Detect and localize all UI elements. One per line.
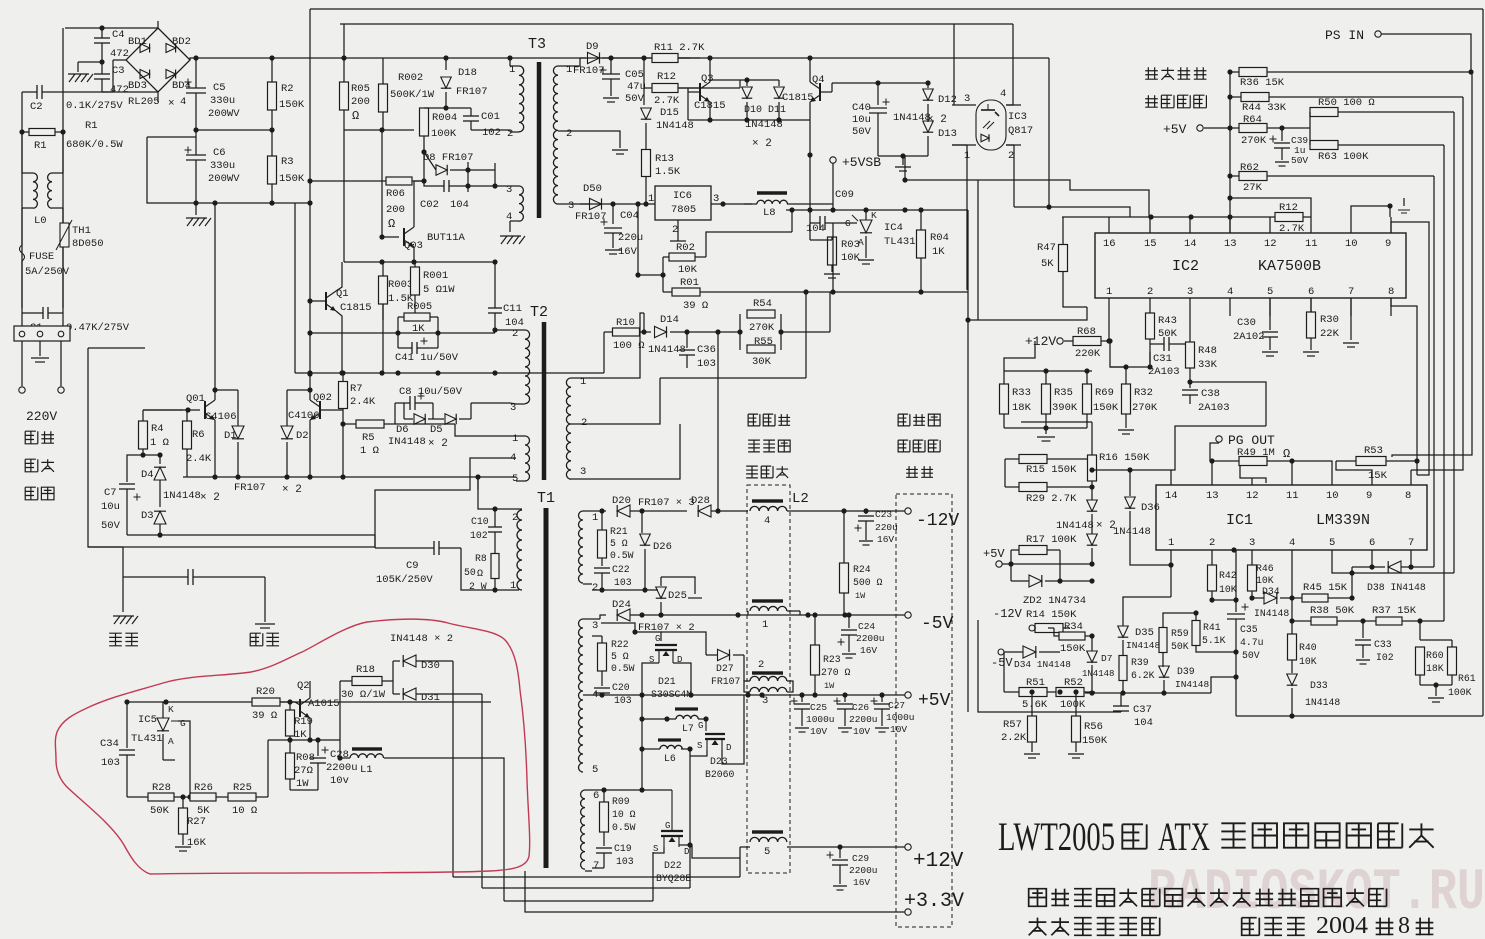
winding 6-7 circuit R09/C19: [592, 789, 604, 791]
svg-text:C1815: C1815: [782, 92, 814, 104]
svg-text:G: G: [845, 218, 851, 229]
wire Q03 emitter rail: [344, 129, 414, 131]
svg-text:4: 4: [1000, 88, 1006, 100]
svg-text:103: 103: [697, 358, 716, 370]
diode D18 FR107: [445, 58, 447, 70]
wire from plug to switch area: [88, 348, 375, 547]
resistor R50 100ohm: [1310, 108, 1338, 117]
svg-text:+5V: +5V: [983, 547, 1005, 561]
svg-text:IC1: IC1: [1226, 512, 1253, 529]
wire bottom long line y=716: [1236, 715, 1483, 717]
svg-text:150K: 150K: [279, 173, 305, 185]
svg-text:14: 14: [1184, 238, 1197, 250]
diode D34b 1N4148: [1023, 646, 1036, 658]
transformer T2 core bar: [542, 322, 547, 480]
Y-cap between grounds: [187, 569, 189, 585]
wire IC5 G to divider: [178, 721, 190, 797]
svg-text:R004: R004: [432, 112, 457, 124]
resistor R61 100K: [1448, 647, 1457, 675]
resistor R40 10K: [1288, 634, 1297, 660]
resistor R33 18K: [1000, 384, 1009, 414]
svg-text:27K: 27K: [1243, 182, 1263, 194]
svg-text:50K: 50K: [1171, 641, 1189, 652]
svg-text:R10: R10: [616, 317, 635, 329]
resistor R7 2.4K: [339, 382, 348, 409]
svg-text:R03: R03: [841, 239, 860, 251]
wire bus +12V return y=877: [453, 876, 740, 878]
resistor R6 2.4K: [183, 421, 192, 449]
wire right bus 5 (R36 net): [1392, 72, 1472, 457]
svg-text:5K: 5K: [1041, 258, 1054, 270]
wire D30 to bus: [452, 661, 454, 877]
wire C4 top: [102, 27, 158, 29]
svg-text:LWT2005: LWT2005: [998, 814, 1115, 859]
R49 bracket ground: [1240, 466, 1266, 483]
wire T2 right pin3: [580, 424, 680, 479]
svg-text:1000u: 1000u: [886, 712, 915, 723]
svg-text:104: 104: [1134, 717, 1153, 729]
svg-text:K: K: [168, 704, 174, 715]
label DC output connector: [898, 414, 910, 426]
svg-text:R3: R3: [281, 156, 294, 168]
capacitor C04 220u/16V: [612, 204, 614, 224]
svg-text:R04: R04: [930, 232, 949, 244]
wire pin1 down: [1108, 316, 1110, 341]
svg-text:1: 1: [762, 619, 768, 631]
svg-text:D30: D30: [421, 660, 440, 672]
transformer T2 left winding pins 2-3: [516, 329, 525, 331]
svg-text:C37: C37: [1133, 704, 1152, 716]
svg-text:D34: D34: [1262, 586, 1280, 597]
terminal +12V out: [905, 844, 911, 850]
wire mid bus x=1417: [1416, 390, 1418, 461]
svg-text:C02: C02: [420, 199, 439, 211]
svg-text:2: 2: [512, 328, 518, 340]
optocoupler IC3 Q817: [976, 100, 1006, 150]
transistor Q03 BUT11A: [403, 228, 405, 246]
wire T2 right pin2 tap: [571, 423, 580, 425]
svg-text:R12: R12: [657, 71, 676, 83]
svg-text:L7: L7: [682, 723, 694, 734]
svg-text:2A102: 2A102: [1233, 331, 1265, 343]
svg-text:R41: R41: [1203, 622, 1221, 633]
svg-text:14: 14: [1165, 490, 1178, 502]
PFC winding 3: [750, 687, 787, 692]
resistor R52 100K: [1056, 688, 1084, 697]
transformer T2 left winding pins 1-4-5: [516, 435, 525, 437]
svg-text:3: 3: [964, 93, 970, 105]
resistor R68 220K: [1073, 337, 1101, 346]
svg-text:Q3: Q3: [701, 73, 714, 85]
wire x=806 up: [805, 292, 807, 378]
svg-text:D50: D50: [583, 183, 602, 195]
wire R42 bottom to C35 node: [1212, 599, 1236, 601]
svg-text:BD2: BD2: [172, 36, 191, 48]
wire R08/C28 bottom: [290, 789, 318, 791]
svg-text:R50 100 Ω: R50 100 Ω: [1318, 97, 1375, 109]
capacitor C5 330u/200WV: [195, 58, 197, 88]
wire mid rail between C5/C6: [196, 129, 272, 131]
wire Q01 emitter: [214, 420, 216, 477]
thermistor TH1 SD050: [60, 223, 69, 247]
wire right bus 3 (R50 net): [1453, 112, 1455, 573]
capacitor C25 1000u/10V: [801, 695, 803, 702]
IC6 output to L8: [711, 203, 752, 205]
svg-text:R19: R19: [294, 716, 313, 728]
wire AC left rail: [21, 92, 23, 308]
transformer T3 secondary winding right: [558, 65, 567, 67]
svg-text:D25: D25: [668, 590, 687, 602]
ground near C3: [78, 61, 102, 63]
svg-text:+5VSB: +5VSB: [842, 155, 881, 170]
svg-text:C29: C29: [852, 853, 869, 864]
svg-text:11: 11: [1286, 490, 1299, 502]
svg-text:R18: R18: [356, 664, 375, 676]
svg-text:18K: 18K: [1012, 402, 1032, 414]
resistor R43 50K: [1146, 313, 1155, 339]
wire R49 line to pin10 region: [1292, 461, 1332, 485]
svg-text:105K/250V: 105K/250V: [376, 574, 433, 586]
svg-text:R20: R20: [256, 686, 275, 698]
svg-text:D39: D39: [1177, 666, 1195, 677]
bridge rectifier BD1-BD4 RL205x4: [126, 28, 190, 92]
svg-text:1N4148: 1N4148: [656, 120, 694, 132]
resistor R16 150K vertical: [1088, 455, 1097, 481]
svg-text:220V: 220V: [26, 409, 57, 424]
svg-text:R06: R06: [386, 188, 405, 200]
wire D8 net to T3 pin3: [468, 169, 495, 171]
resistor R44 33K: [1241, 93, 1269, 102]
svg-text:-5V: -5V: [921, 614, 954, 634]
wire 5VSB feedback rail: [832, 204, 834, 210]
wire ZD2 node right: [1060, 580, 1092, 582]
resistor R59 50K: [1159, 628, 1167, 653]
svg-text:C41 1u/50V: C41 1u/50V: [395, 352, 459, 364]
svg-text:4: 4: [764, 515, 770, 527]
svg-text:2: 2: [1008, 150, 1014, 162]
svg-text:R57: R57: [1003, 719, 1022, 731]
diodes 1N4148 x2 below R16: [1087, 500, 1098, 511]
svg-text:1N4148: 1N4148: [1056, 520, 1094, 532]
resistor R28 50K: [148, 793, 174, 801]
capacitor C19 103: [596, 847, 612, 849]
PFC dashed box L2: [747, 485, 790, 873]
ground main bulk: [195, 203, 197, 215]
svg-text:33K: 33K: [1198, 359, 1218, 371]
svg-text:8D050: 8D050: [72, 238, 104, 250]
svg-text:8: 8: [1405, 490, 1411, 502]
svg-text:D34 1N4148: D34 1N4148: [1014, 659, 1071, 670]
resistor R32 270K: [1122, 384, 1131, 414]
capacitor C23 220u/16V: [865, 511, 867, 514]
svg-text:0.5W: 0.5W: [610, 550, 634, 561]
svg-text:5.1K: 5.1K: [1202, 635, 1226, 646]
svg-text:1 Ω: 1 Ω: [360, 445, 379, 457]
svg-text:7: 7: [1348, 286, 1354, 298]
wire R53 ends: [1336, 461, 1372, 485]
wire R54 node up: [643, 313, 645, 332]
svg-text:10K: 10K: [678, 264, 698, 276]
capacitor C31 2A103: [1163, 337, 1165, 351]
wire D50 output node line y=204: [580, 203, 655, 205]
svg-text:220K: 220K: [1075, 348, 1101, 360]
wire bus y=888: [482, 887, 690, 889]
svg-text:R24: R24: [853, 564, 871, 575]
svg-text:D31: D31: [421, 692, 440, 704]
transformer T1 core bar: [544, 508, 549, 868]
AC plug connector: [14, 326, 70, 341]
IC regulator IC6 7805: [655, 186, 711, 220]
svg-text:G: G: [655, 634, 660, 644]
svg-text:L2: L2: [792, 491, 809, 507]
svg-text:6: 6: [1369, 537, 1375, 549]
wire bus +3.3V y=912: [525, 871, 545, 912]
wire pin13 to R12b: [1230, 198, 1311, 217]
svg-text:R11 2.7K: R11 2.7K: [654, 42, 705, 54]
svg-text:RL205: RL205: [128, 96, 160, 108]
svg-text:500 Ω: 500 Ω: [853, 577, 883, 588]
wire top line 2 y=24: [340, 23, 1013, 25]
svg-text:LM339N: LM339N: [1316, 512, 1370, 529]
T3 sec tap 2: [558, 130, 567, 132]
wire pin13 up: [1211, 461, 1213, 485]
wire Q4 collector top: [809, 58, 811, 70]
svg-text:10 Ω: 10 Ω: [232, 805, 257, 817]
svg-text:3: 3: [580, 466, 586, 478]
svg-text:C40: C40: [852, 102, 871, 114]
svg-text:+5V: +5V: [918, 691, 951, 711]
resistor R11 2.7K: [652, 54, 678, 63]
svg-text:BYQ28E: BYQ28E: [656, 873, 691, 884]
MOSFET D21 S30SC4M: [601, 623, 661, 641]
svg-text:IN4148: IN4148: [1175, 679, 1210, 690]
svg-text:D6: D6: [396, 424, 409, 436]
svg-text:R4: R4: [151, 423, 164, 435]
svg-text:R54: R54: [753, 298, 772, 310]
reference IC5 TL431: [157, 718, 169, 731]
svg-text:2: 2: [758, 659, 764, 671]
svg-text:R42: R42: [1219, 570, 1237, 581]
svg-text:D28: D28: [691, 495, 710, 507]
svg-text:10V: 10V: [853, 726, 870, 737]
svg-text:R60: R60: [1426, 650, 1444, 661]
diode D35 1N4148: [1118, 626, 1129, 637]
svg-text:220u: 220u: [875, 522, 898, 533]
ground pin of plug: [39, 341, 41, 356]
svg-text:C2: C2: [30, 101, 43, 113]
svg-text:L6: L6: [664, 753, 676, 764]
DC output dashed box: [896, 494, 952, 927]
svg-text:1N4148: 1N4148: [893, 112, 931, 124]
svg-text:Q02: Q02: [313, 392, 332, 404]
capacitor C02 104: [443, 180, 445, 192]
svg-text:IN4148 × 2: IN4148 × 2: [390, 633, 453, 645]
resistor R20 39ohm: [252, 698, 280, 706]
wire Q01 collector bus x=215: [214, 203, 216, 400]
wire winding1 right: [787, 610, 800, 612]
svg-text:R09: R09: [612, 796, 630, 807]
svg-text:16V: 16V: [877, 534, 894, 545]
svg-text:2200u: 2200u: [849, 714, 878, 725]
transistor Q2 A1015: [299, 699, 301, 717]
svg-text:Ω: Ω: [352, 109, 359, 123]
svg-text:4: 4: [1289, 537, 1295, 549]
wire bottom of C40/D13: [878, 155, 928, 157]
cold ground: [264, 577, 266, 622]
svg-text:5: 5: [512, 473, 518, 485]
diode D36 1N4148: [1129, 470, 1131, 496]
svg-text:200WV: 200WV: [208, 108, 240, 120]
svg-text:L1: L1: [360, 764, 373, 776]
wire T2 right pin1: [580, 313, 644, 378]
svg-text:1W: 1W: [855, 591, 866, 601]
svg-text:102: 102: [482, 127, 501, 139]
svg-text:R02: R02: [676, 242, 695, 254]
wire x=690 down bus: [689, 749, 691, 888]
svg-text:9: 9: [1366, 490, 1372, 502]
svg-text:D7: D7: [1101, 653, 1112, 664]
svg-text:C30: C30: [1237, 317, 1256, 329]
svg-text:1000u: 1000u: [806, 714, 835, 725]
svg-text:5: 5: [592, 764, 598, 776]
wire long y=180: [905, 180, 1149, 217]
svg-text:2.2K: 2.2K: [1001, 732, 1027, 744]
wire left rail: [143, 409, 183, 411]
svg-text:R62: R62: [1240, 162, 1259, 174]
svg-text:R22: R22: [611, 639, 629, 650]
svg-text:FUSE: FUSE: [29, 251, 54, 263]
svg-text:5A/250V: 5A/250V: [25, 266, 70, 278]
svg-text:PG OUT: PG OUT: [1228, 433, 1275, 448]
svg-text:2: 2: [507, 128, 513, 140]
svg-text:D: D: [684, 847, 689, 857]
svg-text:12: 12: [1264, 238, 1277, 250]
resistor R01 39ohm: [672, 288, 700, 296]
diode D31: [403, 688, 416, 700]
svg-text:1 Ω: 1 Ω: [150, 437, 169, 449]
capacitor C33 I02: [1362, 621, 1364, 638]
svg-text:D26: D26: [653, 541, 672, 553]
diode D30: [403, 655, 416, 667]
svg-text:R61: R61: [1458, 673, 1476, 684]
svg-text:R7: R7: [350, 383, 363, 395]
diode D25: [645, 589, 658, 591]
svg-text:IN4148: IN4148: [388, 436, 426, 448]
svg-text:+12V: +12V: [1025, 334, 1056, 349]
svg-text:10u: 10u: [852, 114, 871, 126]
svg-text:L8: L8: [763, 207, 776, 219]
svg-text:Q4: Q4: [812, 74, 825, 86]
subtitle line 2: [1029, 918, 1047, 936]
resistor R15 150K: [1019, 455, 1047, 464]
IC2 top pins 16..9: [1108, 217, 1110, 233]
resistor R06 200ohm: [386, 177, 412, 185]
resistor R23 270ohm 1W: [811, 645, 820, 675]
svg-text:10K: 10K: [1219, 584, 1237, 595]
svg-text:Q01: Q01: [186, 393, 205, 405]
svg-text:R21: R21: [610, 526, 628, 537]
svg-text:C5: C5: [213, 82, 226, 94]
svg-text:1: 1: [648, 193, 654, 205]
svg-text:R01: R01: [680, 277, 699, 289]
resistor R35 390K: [1042, 384, 1051, 414]
capacitor C05 47u/50V: [610, 58, 612, 74]
svg-text:270 Ω: 270 Ω: [821, 667, 851, 678]
resistor R30 22K: [1307, 312, 1316, 338]
resistor R27 16K: [179, 808, 188, 834]
svg-text:C4106: C4106: [288, 410, 320, 422]
svg-text:-12V: -12V: [993, 607, 1023, 621]
svg-text:150K: 150K: [279, 99, 305, 111]
svg-text:C23: C23: [875, 509, 892, 520]
resistor R37 15K: [1376, 617, 1402, 625]
svg-text:330u: 330u: [210, 160, 235, 172]
wire T1 primary top from T2 area: [477, 477, 479, 490]
svg-text:270K: 270K: [1241, 135, 1267, 147]
PFC winding 1: [752, 599, 783, 602]
svg-text:ATX: ATX: [1158, 814, 1210, 859]
wire pin1 down: [1170, 550, 1172, 597]
wire Q02 collector to T2: [342, 424, 344, 477]
wire top line y=9: [310, 8, 1483, 10]
svg-text:390K: 390K: [1052, 402, 1078, 414]
wire pin10/9 top: [1351, 206, 1390, 217]
wire top-left to C4: [65, 27, 102, 29]
capacitor C24 2200u/16V: [848, 615, 850, 628]
diode D27 FR107: [718, 649, 730, 660]
svg-text:150K: 150K: [1082, 735, 1108, 747]
diode D9 FR107: [580, 57, 586, 59]
svg-text:D9: D9: [586, 41, 599, 53]
svg-text:270K: 270K: [1132, 402, 1158, 414]
wire R8 bottom row: [461, 548, 519, 590]
svg-text:18K: 18K: [1426, 663, 1444, 674]
MOSFET D23 B2060: [705, 719, 707, 731]
svg-text:C3: C3: [112, 65, 125, 77]
capacitor C30 2A102: [1269, 298, 1271, 330]
svg-text:Q817: Q817: [1008, 125, 1033, 137]
svg-text:4: 4: [1227, 286, 1233, 298]
wire +12V branch down: [1004, 341, 1035, 371]
svg-text:FR107 × 3: FR107 × 3: [638, 497, 695, 509]
svg-text:C01: C01: [481, 111, 500, 123]
svg-text:1N4148: 1N4148: [1113, 526, 1151, 538]
svg-text:R37 15K: R37 15K: [1372, 605, 1417, 617]
svg-text:R59: R59: [1171, 628, 1189, 639]
IC2 bottom pins 1..8: [1108, 298, 1110, 316]
diode D3 1N4148: [154, 511, 166, 524]
svg-text:R43: R43: [1158, 315, 1177, 327]
capacitor C20 103: [594, 687, 610, 689]
resistor R25 10ohm: [228, 793, 256, 801]
wire common emitter line y=120: [688, 119, 810, 121]
svg-text:C33: C33: [1374, 639, 1392, 650]
wire Q02 emitter: [309, 420, 311, 477]
wire bridge left to C2 node: [113, 59, 126, 61]
svg-text:-5V: -5V: [991, 656, 1013, 670]
svg-text:T2: T2: [530, 304, 548, 321]
resistor R19 1K: [286, 710, 295, 736]
svg-text:103: 103: [614, 695, 632, 706]
svg-text:16: 16: [1103, 238, 1116, 250]
svg-text:D18: D18: [458, 67, 477, 79]
wire bridge top to C4: [157, 21, 159, 28]
svg-text:200WV: 200WV: [208, 173, 240, 185]
transformer T3 primary winding pins 1-2: [510, 65, 519, 67]
svg-text:6: 6: [1308, 286, 1314, 298]
svg-text:270K: 270K: [749, 322, 775, 334]
wire rail y=333: [310, 332, 495, 334]
